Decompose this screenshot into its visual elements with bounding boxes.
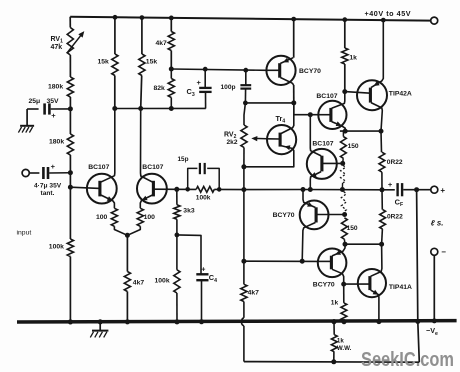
wire 100A to tail node bbox=[114, 226, 127, 235]
node feedback line x244 bbox=[241, 187, 246, 192]
wire TIP42A base bbox=[345, 92, 371, 94]
transistor BC107 input B bbox=[137, 174, 167, 204]
node minus rail bbox=[432, 318, 437, 323]
wire TIP42A emitter up bbox=[371, 20, 383, 88]
capacitor 100p bbox=[245, 70, 247, 85]
resistor 180k lower bbox=[67, 134, 73, 155]
svg-text:2k2: 2k2 bbox=[227, 139, 238, 146]
node C3 top bbox=[203, 67, 208, 72]
node lower line 1kWW bbox=[331, 359, 336, 364]
node x294 collector junction bbox=[291, 100, 296, 105]
node 100p top bbox=[243, 68, 248, 73]
svg-text:100p: 100p bbox=[221, 84, 236, 91]
node rail x201 bbox=[199, 319, 204, 324]
svg-text:BCY70: BCY70 bbox=[299, 68, 321, 75]
resistor 180k upper bbox=[67, 77, 73, 97]
wire Tr4 base with wiper arrow bbox=[267, 138, 280, 140]
svg-text:1k: 1k bbox=[337, 338, 344, 345]
resistor 4k7 tail bbox=[124, 272, 130, 292]
svg-text:BC107: BC107 bbox=[88, 164, 109, 171]
node rail x344 bbox=[341, 319, 346, 324]
wire bias line y69 bbox=[171, 69, 266, 70]
node 100p bottom bbox=[243, 101, 248, 106]
svg-text:100: 100 bbox=[144, 214, 156, 221]
node base tap bbox=[68, 185, 73, 190]
node 3k3 bottom bbox=[175, 233, 180, 238]
svg-text:ℓ s.: ℓ s. bbox=[431, 218, 444, 227]
node BCY70-2 base bbox=[342, 212, 347, 217]
resistor 0R22 lower bbox=[381, 190, 383, 210]
resistor 15k first bbox=[112, 54, 118, 76]
svg-text:4·7μ 35V: 4·7μ 35V bbox=[34, 182, 62, 189]
svg-text:100k: 100k bbox=[196, 195, 211, 202]
wire BCY70-1 emitter to rail bbox=[293, 19, 295, 58]
wire 150 to base tap bbox=[342, 158, 345, 163]
wire BC107B collector bbox=[141, 109, 153, 183]
wire Tr4 emitter down bbox=[244, 146, 294, 167]
capacitor 25u 35V bbox=[27, 108, 38, 110]
node driver base line x244 bbox=[241, 259, 246, 264]
wire y103 bbox=[245, 102, 293, 104]
wire BC107D base right bbox=[322, 162, 343, 164]
wire between nodes bbox=[69, 173, 71, 188]
wire 15k-1 from rail bbox=[114, 17, 116, 54]
wire tail down bbox=[126, 235, 128, 271]
node 15p left bbox=[185, 187, 190, 192]
wire 4k7 to node bbox=[170, 51, 172, 70]
wire BC107A emitter bbox=[101, 195, 115, 208]
capacitor CF output bbox=[382, 189, 395, 191]
wire jog to BC107C base bbox=[294, 103, 319, 115]
wire base BC107 A bbox=[70, 187, 100, 188]
wire BCY70-3 collector down bbox=[332, 269, 344, 284]
svg-text:4k7: 4k7 bbox=[156, 40, 168, 47]
transistor TIP42A bbox=[357, 80, 387, 110]
node loudspeaker return tap bbox=[414, 187, 419, 192]
node output tap rail crossing bbox=[415, 319, 420, 324]
node 82k top bbox=[169, 67, 174, 72]
node top rail x294 bbox=[291, 17, 296, 22]
wire BC107D emitter down bbox=[310, 172, 321, 190]
node BC107D base tap bbox=[340, 161, 345, 166]
resistor 15k second bbox=[139, 54, 145, 76]
resistor 1k WW bbox=[333, 322, 335, 335]
resistor 1k top bbox=[344, 20, 346, 48]
wire BC107B emitter bbox=[140, 195, 152, 208]
node rail x127 bbox=[125, 319, 130, 324]
resistor 100k feedback bbox=[196, 187, 214, 193]
svg-text:35V: 35V bbox=[47, 98, 60, 105]
wire lower return line bbox=[244, 361, 419, 364]
wire 15k-1 to node bbox=[114, 76, 116, 109]
node rail x177 bbox=[174, 319, 179, 324]
svg-text:3k3: 3k3 bbox=[183, 207, 195, 214]
wire 100p node to RV2 bbox=[244, 103, 245, 125]
node y131 right bbox=[379, 129, 384, 134]
node 25u junction bbox=[68, 106, 73, 111]
wire BC107C emitter bbox=[332, 122, 346, 132]
transistor BC107 D bias bbox=[307, 149, 337, 179]
wire top +V rail bbox=[70, 17, 431, 21]
node top rail x142 bbox=[140, 15, 145, 20]
resistor 100 emitter A bbox=[111, 208, 117, 226]
svg-text:+: + bbox=[51, 162, 56, 171]
wire 3k3 to node bbox=[176, 219, 178, 235]
ground 25u bbox=[26, 109, 28, 126]
transistor TIP41A bbox=[358, 269, 386, 297]
resistor 3k3 bbox=[176, 189, 178, 205]
node y244 right bbox=[379, 242, 384, 247]
wire BCY70-3 emitter up bbox=[332, 244, 345, 256]
capacitor 4.7u 35V tant bbox=[29, 172, 39, 174]
wire VAS collector line bbox=[340, 130, 381, 132]
resistor 82k bbox=[170, 69, 172, 79]
capacitor 15p bbox=[188, 168, 198, 189]
wire TIP41A emitter down bbox=[371, 290, 379, 321]
node tail junction bbox=[125, 233, 130, 238]
resistor dashed upper bbox=[341, 166, 346, 183]
wire BCY70-1 collector down bbox=[293, 85, 295, 103]
terminal +40V supply bbox=[431, 17, 438, 24]
terminal minus output bbox=[431, 248, 438, 255]
wire RV2 node down bbox=[243, 167, 245, 190]
wire RV2 to emitter node bbox=[243, 148, 245, 167]
wire Tr4 collector up bbox=[281, 103, 294, 134]
wire feedback line right bbox=[214, 188, 244, 190]
svg-text:+: + bbox=[51, 111, 56, 120]
svg-text:1k: 1k bbox=[349, 54, 357, 61]
svg-text:BC107: BC107 bbox=[316, 93, 337, 100]
node TIP41A base junction bbox=[341, 282, 346, 287]
wire output tap down bbox=[417, 190, 420, 363]
transistor BCY70 third bbox=[318, 248, 347, 277]
svg-text:47k: 47k bbox=[51, 44, 63, 51]
node Tr4 emitter / RV2 bbox=[241, 164, 246, 169]
wire feedback mid bbox=[244, 189, 303, 191]
svg-text:0R22: 0R22 bbox=[387, 159, 403, 166]
node rail ground bbox=[98, 319, 103, 324]
svg-text:180k: 180k bbox=[49, 138, 64, 145]
wire down to 100k bias bbox=[69, 187, 71, 239]
node BC107D collector tap bbox=[308, 112, 313, 117]
node rail x334 bbox=[331, 319, 336, 324]
node B collector junction bbox=[138, 106, 143, 111]
capacitor C4 bbox=[196, 273, 208, 275]
wire BCY70-2 emitter up bbox=[303, 190, 315, 208]
potentiometer RV1 47k bbox=[67, 28, 73, 56]
wire 15k-2 from rail bbox=[141, 18, 143, 54]
wire 4k7 with hop over rail bbox=[243, 302, 245, 318]
svg-text:TIP42A: TIP42A bbox=[389, 90, 412, 97]
wire to 180k lower bbox=[69, 109, 71, 134]
svg-text:−: − bbox=[441, 248, 446, 257]
svg-text:100: 100 bbox=[96, 214, 108, 221]
terminal input bbox=[22, 169, 29, 176]
svg-text:15k: 15k bbox=[98, 59, 110, 66]
resistor 0R22 upper bbox=[380, 131, 383, 152]
wire 100k to ground rail bbox=[69, 257, 71, 322]
wire 4k7 tail to rail bbox=[126, 292, 128, 322]
potentiometer RV2 2k2 bbox=[241, 125, 247, 148]
wire 100k to rail bbox=[176, 293, 178, 322]
svg-text:+: + bbox=[201, 264, 205, 273]
wire 4k7 from rail bbox=[170, 18, 172, 32]
svg-text:1k: 1k bbox=[331, 299, 339, 306]
svg-text:tant.: tant. bbox=[41, 190, 55, 197]
wire BC107D collector up bbox=[310, 115, 321, 156]
svg-text:15p: 15p bbox=[178, 156, 189, 163]
wire BCY70-2 base right bbox=[316, 214, 345, 216]
svg-text:+: + bbox=[197, 78, 202, 87]
wire minus terminal down bbox=[433, 255, 435, 321]
node output junction bbox=[380, 187, 385, 192]
svg-text:+: + bbox=[388, 180, 393, 189]
wire 82k to node bbox=[170, 98, 172, 109]
svg-text:TIP41A: TIP41A bbox=[389, 284, 412, 291]
wire collector line y108 bbox=[115, 107, 206, 109]
terminal plus output bbox=[431, 186, 438, 193]
svg-text:+40V to 45V: +40V to 45V bbox=[365, 9, 412, 18]
transistor Q BCY70 current source bbox=[266, 56, 295, 85]
svg-text:82k: 82k bbox=[154, 85, 166, 92]
svg-text:SeekIC.com: SeekIC.com bbox=[361, 348, 454, 371]
node BC107D emitter output line bbox=[308, 187, 313, 192]
svg-text:100k: 100k bbox=[49, 244, 64, 251]
resistor 4k7 lower right bbox=[241, 284, 247, 301]
wire 15k-2 to node bbox=[141, 76, 142, 109]
svg-text:180k: 180k bbox=[48, 84, 63, 91]
wire down to driver base line bbox=[243, 190, 245, 262]
node top rail x345 bbox=[342, 17, 347, 22]
node y131 left bbox=[343, 129, 348, 134]
wire TIP41A base bbox=[344, 283, 370, 285]
svg-text:150: 150 bbox=[348, 143, 359, 150]
wire 100k lower bbox=[176, 235, 178, 270]
wire to C4 bbox=[177, 235, 201, 274]
node top rail x115 bbox=[113, 15, 118, 20]
resistor 4k7 top bbox=[168, 32, 174, 51]
wire RV1 to 180k bbox=[69, 55, 71, 77]
wire BC107A collector bbox=[101, 109, 115, 183]
svg-text:BC107: BC107 bbox=[142, 164, 163, 171]
capacitor C3 bbox=[204, 69, 206, 87]
wire TIP42A collector down bbox=[371, 103, 382, 132]
svg-text:25μ: 25μ bbox=[29, 98, 41, 105]
wire bottom rail bbox=[17, 321, 457, 322]
node 15p right bbox=[217, 187, 222, 192]
node input cap junction bbox=[68, 170, 73, 175]
wire BCY70-2 collector down bbox=[302, 223, 315, 262]
node A collector junction bbox=[112, 106, 117, 111]
node rail x70 bbox=[68, 319, 73, 324]
wire feedback line left bbox=[153, 188, 196, 190]
transistor Tr4 bbox=[267, 125, 296, 154]
wire rail corner to RV1 bbox=[69, 17, 71, 28]
wire driver base line bbox=[244, 260, 318, 262]
wire 180k to node bbox=[69, 97, 71, 109]
svg-text:input: input bbox=[17, 230, 32, 237]
svg-text:0R22: 0R22 bbox=[387, 213, 403, 220]
resistor 100 emitter B bbox=[137, 208, 143, 226]
svg-text:BCY70: BCY70 bbox=[313, 282, 335, 289]
node 3k3 tap bbox=[174, 187, 179, 192]
node rail x379 bbox=[376, 319, 381, 324]
svg-text:BC107: BC107 bbox=[312, 141, 333, 148]
resistor dashed lower bbox=[343, 190, 345, 192]
svg-text:15k: 15k bbox=[146, 58, 158, 65]
node top rail x171 bbox=[169, 16, 174, 21]
wire 180k to input node bbox=[69, 155, 71, 173]
svg-text:+: + bbox=[440, 186, 445, 195]
node TIP42A base junction bbox=[342, 89, 347, 94]
svg-text:BCY70: BCY70 bbox=[273, 212, 295, 219]
resistor 100k lower bbox=[174, 270, 180, 293]
svg-text:150: 150 bbox=[347, 225, 358, 232]
svg-text:4k7: 4k7 bbox=[133, 279, 145, 286]
resistor 1k driver bbox=[343, 284, 345, 303]
wire TIP41A collector up bbox=[371, 244, 382, 276]
transistor BC107 input A bbox=[87, 174, 117, 204]
wire 100B to tail node bbox=[127, 226, 140, 235]
node mirror line x171 bbox=[169, 106, 174, 111]
node BCY70-2 emitter bbox=[301, 187, 306, 192]
transistor BC107 C bbox=[318, 101, 346, 129]
resistor 150 lower bbox=[342, 218, 348, 239]
svg-text:4k7: 4k7 bbox=[248, 290, 260, 297]
ground bottom bbox=[99, 322, 101, 331]
node y244 left bbox=[343, 242, 348, 247]
wire y244 bbox=[345, 243, 382, 245]
node BCY70-2 collector joins bbox=[300, 259, 305, 264]
transistor BCY70 second bbox=[300, 201, 329, 230]
svg-text:100k: 100k bbox=[155, 278, 170, 285]
resistor 100k input bias bbox=[67, 239, 73, 257]
svg-text:W.W.: W.W. bbox=[337, 345, 352, 352]
node output line x342 bbox=[340, 187, 345, 192]
node top rail x383 bbox=[381, 18, 386, 23]
wire node to 4k7 bbox=[243, 261, 245, 284]
resistor 150 upper bbox=[342, 131, 344, 137]
wire BC107C collector bbox=[332, 92, 345, 109]
